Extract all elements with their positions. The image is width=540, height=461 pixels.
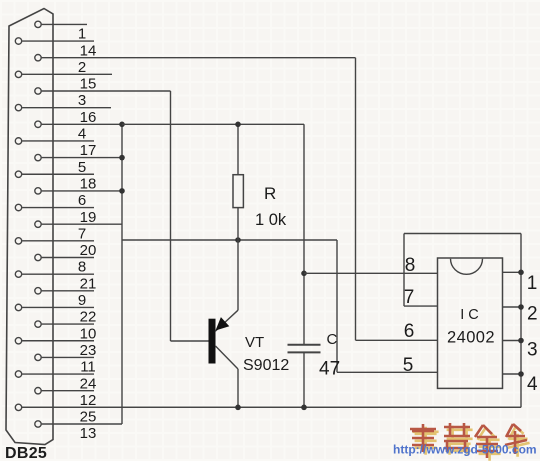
svg-text:VT: VT <box>245 334 264 351</box>
svg-text:2: 2 <box>78 59 86 76</box>
DB25 pin 2: contact circle, lead wire, pin number <box>35 55 356 76</box>
svg-text:24: 24 <box>80 375 97 392</box>
svg-text:http://www.zgd-5000.com: http://www.zgd-5000.com <box>393 443 537 457</box>
wire: node B horizontal from V1 to SDA drop (y=240) <box>122 239 337 241</box>
DB25 pin 23: contact circle, lead wire, pin number <box>15 338 96 359</box>
junction dot collector/rail <box>235 405 241 411</box>
junction dot IC pin3 <box>518 338 524 344</box>
wire: pin 2 net to SCL, vertical drop at x=355.5 <box>355 58 357 341</box>
junction dot pin6/V1 <box>119 188 125 194</box>
resistor R vertical lead (pin4 line down through node B to emitter kink) <box>237 124 239 310</box>
svg-text:R: R <box>264 184 276 203</box>
wire: node A vertical drop at x=304 <box>303 124 305 344</box>
svg-text:21: 21 <box>80 275 97 292</box>
DB25 pin 5: contact circle, lead wire, pin number <box>35 154 122 175</box>
wire: IC pin 4 stub <box>503 373 522 375</box>
svg-text:8: 8 <box>78 259 86 276</box>
DB25 pin 24: contact circle, lead wire, pin number <box>15 371 96 392</box>
svg-text:3: 3 <box>527 340 538 361</box>
svg-text:2: 2 <box>527 304 538 325</box>
junction dot IC pin2 <box>518 304 524 310</box>
DB25 pin 3: contact circle, lead wire, pin number <box>35 88 171 109</box>
svg-text:23: 23 <box>80 342 97 359</box>
DB25 connector J1 body outline <box>6 9 53 445</box>
transistor VT base bar <box>209 319 216 364</box>
wire: SDA vertical drop at x=337 <box>336 240 338 372</box>
capacitor C top plate <box>288 344 321 346</box>
transistor VT emitter diagonal with PNP arrow <box>215 310 238 331</box>
DB25 pin 7: contact circle, lead wire, pin number <box>35 221 122 242</box>
svg-text:1 0k: 1 0k <box>255 211 287 229</box>
wire: pin 3 net drop to transistor base (x=170.5) <box>170 91 172 341</box>
wire: supply tap horizontal to IC pin 8 <box>304 272 438 274</box>
wire: WP box top horizontal (y=233.5) <box>404 233 521 235</box>
wire: IC pin 2 stub <box>503 306 522 308</box>
junction dot pin4/V1 <box>119 122 125 128</box>
junction dot IC pin1 <box>518 270 524 276</box>
svg-text:11: 11 <box>80 359 96 376</box>
wire: pin 4 line continuation to node A corner (y=124.3) <box>122 123 304 125</box>
wire: collector down to ground rail <box>237 369 239 407</box>
svg-text:DB25: DB25 <box>5 445 47 461</box>
wire: SDA horizontal into IC pin 5 <box>337 371 438 373</box>
DB25 pin 6: contact circle, lead wire, pin number <box>35 188 122 209</box>
svg-text:10: 10 <box>80 325 97 342</box>
DB25 pin 4: contact circle, lead wire, pin number <box>35 121 122 142</box>
junction dot node A / IC pin8 supply tap <box>301 271 307 277</box>
junction dot capacitor/rail <box>301 405 307 411</box>
svg-text:6: 6 <box>404 321 415 342</box>
DB25 pin 12: contact circle, lead wire, pin number <box>35 388 97 409</box>
svg-text:20: 20 <box>80 242 97 259</box>
svg-text:5: 5 <box>78 159 86 176</box>
svg-text:15: 15 <box>80 76 97 93</box>
svg-text:13: 13 <box>80 425 97 442</box>
DB25 pin 25: contact circle, lead wire, pin number <box>15 404 521 425</box>
junction dot IC pin4 <box>518 371 524 377</box>
wire: capacitor bottom lead to ground rail <box>303 352 305 407</box>
svg-text:7: 7 <box>78 225 86 242</box>
svg-text:18: 18 <box>80 175 97 192</box>
DB25 pin 19: contact circle, lead wire, pin number <box>15 204 96 225</box>
svg-text:C: C <box>327 331 338 348</box>
wire: IC pin 3 stub <box>503 340 522 342</box>
svg-text:4: 4 <box>78 126 86 143</box>
svg-text:5: 5 <box>403 355 414 376</box>
svg-text:25: 25 <box>80 409 97 426</box>
DB25 pin 11: contact circle, lead wire, pin number <box>35 354 96 375</box>
watermark: red CJK-style glyph blocks with yellow shadow <box>393 423 537 461</box>
svg-text:S9012: S9012 <box>243 357 289 374</box>
svg-text:3: 3 <box>78 92 86 109</box>
wire: IC pin 1 stub <box>503 271 522 273</box>
svg-text:6: 6 <box>78 192 86 209</box>
svg-text:12: 12 <box>80 392 97 409</box>
DB25 pin 13: contact circle, lead wire, pin number <box>35 421 122 442</box>
svg-text:1: 1 <box>527 273 538 294</box>
svg-text:24002: 24002 <box>447 329 495 347</box>
DB25 pin 20: contact circle, lead wire, pin number <box>15 238 96 259</box>
svg-text:14: 14 <box>80 42 97 59</box>
DB25 pin 14: contact circle, lead wire, pin number <box>15 38 96 59</box>
junction dot R bottom / emitter / node B <box>235 237 241 243</box>
DB25 pin 22: contact circle, lead wire, pin number <box>15 304 96 325</box>
DB25 pin 17: contact circle, lead wire, pin number <box>15 138 96 159</box>
wire: SCL horizontal into IC pin 6 <box>356 339 438 341</box>
svg-text:16: 16 <box>80 109 97 126</box>
svg-text:47: 47 <box>319 359 340 380</box>
DB25 pin 18: contact circle, lead wire, pin number <box>15 171 96 192</box>
transistor VT collector diagonal <box>216 346 239 369</box>
svg-text:1: 1 <box>78 26 86 43</box>
svg-text:IC: IC <box>460 307 483 323</box>
DB25 pin 15: contact circle, lead wire, pin number <box>15 71 112 92</box>
DB25 pin 21: contact circle, lead wire, pin number <box>15 271 96 292</box>
svg-text:4: 4 <box>527 374 538 395</box>
wire: base horizontal to VT <box>171 340 209 342</box>
resistor R body <box>233 175 243 208</box>
IC orientation notch <box>451 259 483 275</box>
DB25 pin 8: contact circle, lead wire, pin number <box>35 254 94 275</box>
ground rail (pin 25 net, y=407.35) <box>22 406 521 408</box>
wire: WP box left vertical (x=404) <box>403 234 405 307</box>
wire: IC pin 7 stub <box>404 305 438 307</box>
DB25 pin 9: contact circle, lead wire, pin number <box>35 288 94 309</box>
DB25 pin 1: contact circle, lead wire, pin number <box>35 21 87 42</box>
DB25 pin 10: contact circle, lead wire, pin number <box>35 321 97 342</box>
svg-text:17: 17 <box>80 142 97 159</box>
wire: ground loop right vertical (x=520.5) <box>520 234 522 408</box>
junction dot pin4 line / R top <box>235 122 241 128</box>
junction dot pin5/V1 <box>119 155 125 161</box>
DB25 pin 16: contact circle, lead wire, pin number <box>15 104 111 125</box>
svg-text:22: 22 <box>80 309 97 326</box>
svg-text:19: 19 <box>80 209 97 226</box>
svg-text:8: 8 <box>405 255 416 276</box>
svg-text:9: 9 <box>78 292 86 309</box>
capacitor C bottom plate <box>288 351 321 353</box>
bus vertical V1 joining pins 4,5,6,7,13 (x=122) <box>121 124 123 424</box>
svg-text:7: 7 <box>404 287 415 308</box>
IC U1 24002 body <box>438 258 503 388</box>
